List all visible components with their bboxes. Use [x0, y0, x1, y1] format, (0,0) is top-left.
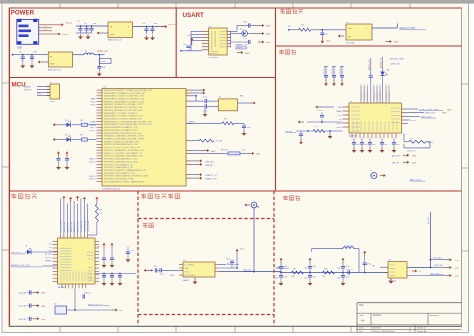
bias cap C34	[275, 273, 287, 286]
junction U2 out	[146, 26, 154, 28]
svg-text:ADCLK1_75M: ADCLK1_75M	[400, 27, 415, 30]
BNC P1	[251, 200, 259, 208]
labels topright filter	[390, 58, 404, 66]
power arrow C44	[34, 291, 47, 295]
wire R1 to U5	[311, 29, 346, 31]
svg-text:DVDD_3.3: DVDD_3.3	[67, 223, 69, 232]
svg-text:Drawn By:: Drawn By:	[417, 330, 427, 333]
U9 out row2	[219, 267, 237, 269]
U8 top pins	[61, 234, 88, 238]
resistor R8 vertical	[88, 197, 103, 235]
svg-text:SWDIO: SWDIO	[24, 86, 31, 88]
capacitor C23 xtal	[203, 104, 218, 113]
svg-text:0.1u: 0.1u	[95, 257, 99, 259]
USB connector J1 body	[17, 20, 39, 45]
svg-text:GND: GND	[170, 275, 175, 277]
labels right net	[95, 246, 99, 259]
mixer U9 body	[183, 262, 215, 277]
U1 designator	[103, 86, 107, 88]
svg-text:PB7/I2C1_SDA/TIM4_CH2/USART1_R: PB7/I2C1_SDA/TIM4_CH2/USART1_RX	[104, 155, 143, 158]
power arrow up usart	[187, 35, 193, 45]
svg-text:USART: USART	[183, 12, 205, 19]
USB connector J1 pads	[17, 19, 37, 45]
capacitor C30 ref bottom	[83, 293, 92, 299]
U9 right pins	[215, 265, 219, 272]
svg-text:GND: GND	[41, 319, 46, 321]
net label AVDD vertical red	[380, 57, 383, 68]
LED D5	[27, 248, 58, 254]
svg-text:VCC: VCC	[455, 260, 460, 262]
gnd under caps xtal	[203, 108, 208, 117]
svg-text:MIX_IN: MIX_IN	[392, 162, 399, 164]
wire BNC vertical	[253, 208, 255, 272]
capacitor C3	[89, 23, 97, 33]
crystal Y1 body	[218, 97, 237, 111]
resistor R2 filter	[313, 126, 343, 132]
divider MCU/filter bottom	[10, 190, 462, 192]
capacitor C50 under U6	[352, 138, 360, 153]
svg-text:10k: 10k	[322, 276, 325, 278]
power port 5V arrow	[58, 23, 73, 27]
det out row2	[430, 264, 459, 270]
regulator U2 label	[108, 39, 122, 42]
capacitor C53 under U6	[380, 138, 388, 153]
LED D1 usart	[231, 29, 259, 37]
U1 right pins top	[186, 90, 192, 178]
dashed box mixer bottom	[138, 314, 274, 316]
det main wire	[281, 272, 388, 274]
bypass top wire det	[312, 249, 343, 252]
capacitor C54 under U6	[392, 138, 400, 153]
svg-text:104: 104	[304, 267, 307, 269]
BNC J6 filter out	[370, 170, 386, 179]
capacitor C51 under U6	[360, 138, 368, 153]
svg-text:AVCC_3.3: AVCC_3.3	[97, 50, 108, 53]
VCC arrow opamp	[412, 270, 422, 274]
wire U5 output	[372, 24, 397, 29]
svg-text:AD8367: AD8367	[349, 135, 358, 138]
ground under C3	[86, 34, 91, 39]
U1 internal pin names	[104, 89, 153, 184]
U1 left pin labels	[89, 98, 96, 181]
svg-text:GND: GND	[245, 53, 250, 55]
svg-text:USART1_TX: USART1_TX	[205, 174, 217, 177]
section title signal-input (CJK)	[141, 193, 180, 198]
svg-text:Number: Number	[373, 314, 381, 317]
capacitor C20 mcu	[56, 151, 61, 170]
svg-text:104: 104	[356, 144, 359, 146]
svg-text:Sheet of: Sheet of	[417, 326, 426, 329]
bias cap C36	[337, 273, 349, 286]
U7 left stub	[384, 272, 388, 274]
svg-text:VPS1_IN: VPS1_IN	[389, 92, 391, 100]
svg-text:VPS1_IN: VPS1_IN	[386, 92, 388, 100]
ground under C5	[150, 35, 155, 40]
svg-text:AGND_REF: AGND_REF	[70, 221, 73, 232]
wire USB D+	[39, 29, 52, 31]
svg-text:C40: C40	[284, 266, 287, 268]
U6 right pins	[402, 109, 406, 124]
svg-text:C41: C41	[313, 266, 316, 268]
svg-text:PB9/TIM4_CH4/CANTX/I2C1_SDA: PB9/TIM4_CH4/CANTX/I2C1_SDA	[104, 160, 138, 163]
filter IC U6 body	[349, 103, 402, 133]
svg-text:C46 104: C46 104	[19, 319, 27, 321]
svg-text:VSS_3: VSS_3	[89, 176, 96, 178]
svg-text:C30 0.1: C30 0.1	[84, 293, 92, 295]
section title mixer (CJK)	[143, 223, 154, 228]
svg-text:PB0/ADC12_IN8/TIM3_CH3/TIM1_CH: PB0/ADC12_IN8/TIM3_CH3/TIM1_CH2N	[104, 135, 144, 138]
U8 left pin labels	[45, 244, 52, 263]
capacitor C6	[19, 51, 25, 62]
svg-text:VPS1_IN: VPS1_IN	[364, 92, 366, 100]
svg-text:C44 104: C44 104	[19, 293, 27, 295]
svg-text:POWER: POWER	[11, 9, 35, 16]
arrow left VCA	[315, 106, 334, 109]
U9 internal text	[185, 264, 196, 277]
inductor L1	[84, 51, 94, 55]
svg-text:PA3/USART2_RX/ADC12_IN3/TIM2_C: PA3/USART2_RX/ADC12_IN3/TIM2_CH4	[104, 97, 145, 100]
title block grid	[357, 303, 462, 333]
svg-text:C35: C35	[313, 277, 316, 279]
svg-text:GND: GND	[185, 268, 190, 270]
svg-text:2021/5/30: 2021/5/30	[371, 327, 382, 329]
filter top pin numbers	[361, 84, 390, 86]
bypass right drop	[354, 249, 359, 273]
svg-text:VPS2: VPS2	[336, 123, 342, 125]
svg-text:PB6/I2C1_SCL/TIM4_CH1/USART1_T: PB6/I2C1_SCL/TIM4_CH1/USART1_TX	[104, 152, 143, 155]
svg-text:CLK: CLK	[338, 115, 343, 117]
svg-text:104: 104	[396, 144, 399, 146]
power arrow C46	[34, 317, 47, 321]
capacitor C17 filter	[316, 110, 324, 122]
divider POWER bottom	[10, 77, 276, 79]
svg-text:PA7/SPI1_MOSI/ADC12_IN7/TIM3_C: PA7/SPI1_MOSI/ADC12_IN7/TIM3_CH2	[104, 109, 144, 112]
resistor R10 det	[322, 268, 335, 278]
U8 right pins	[95, 241, 99, 281]
svg-text:PC13/TAMPER-RTC/ANTI_TAMP/WKUP: PC13/TAMPER-RTC/ANTI_TAMP/WKUP2	[104, 180, 145, 183]
bias tap 1 arrow up	[275, 258, 287, 274]
svg-text:VOUTP_DDS: VOUTP_DDS	[88, 220, 90, 232]
ground bent filter	[328, 131, 333, 139]
resistor R3 gain	[404, 134, 434, 144]
capacitor C21 mcu	[65, 151, 70, 170]
svg-text:C36: C36	[346, 277, 349, 279]
svg-text:VCC: VCC	[455, 268, 460, 270]
bias cap C35	[304, 273, 316, 286]
wire clk to U8	[43, 265, 59, 267]
opamp U7 body	[388, 262, 407, 278]
VCC arrow mixer	[236, 249, 245, 269]
svg-text:A_VCC: A_VCC	[427, 217, 430, 224]
wire X2 out	[67, 309, 113, 311]
svg-text:D2: D2	[49, 250, 51, 252]
svg-text:VPS1_IN: VPS1_IN	[377, 92, 379, 100]
ground under U9	[193, 277, 198, 284]
svg-text:PA13/JTMS/SWDIO/USART2_CTS: PA13/JTMS/SWDIO/USART2_CTS	[104, 126, 138, 129]
svg-text:PA15/JTDI/SPI1_NSS/TIM2_CH1_ET: PA15/JTDI/SPI1_NSS/TIM2_CH1_ETR	[104, 132, 142, 135]
svg-text:C17 0.1: C17 0.1	[316, 110, 324, 112]
svg-text:104: 104	[337, 278, 340, 280]
svg-text:Size: Size	[359, 315, 364, 317]
net label CH2 IN	[243, 270, 255, 272]
power port GND arrow	[55, 33, 68, 37]
net label box	[100, 58, 112, 63]
U6 bottom pins	[352, 134, 396, 139]
svg-text:VDD_2: VDD_2	[89, 162, 96, 164]
U7 internal	[390, 265, 396, 276]
arrows rows 174-178	[192, 173, 217, 181]
capacitor C1	[77, 21, 83, 34]
U8 left pins	[53, 241, 59, 281]
U6 right wire row1	[405, 109, 452, 112]
capacitor row A	[243, 22, 258, 28]
wire LED row C	[231, 41, 249, 43]
svg-text:C34: C34	[284, 277, 287, 279]
U7 designator	[388, 259, 392, 261]
capacitor C33 mixer	[226, 258, 234, 268]
dashed box signal-input right	[273, 191, 275, 326]
LED D4 row	[53, 135, 97, 142]
svg-text:GND: GND	[41, 306, 46, 308]
svg-text:C19 0.1u: C19 0.1u	[407, 150, 416, 152]
power arrow row B	[258, 32, 271, 36]
svg-text:2: 2	[373, 84, 374, 86]
net label AVCC red	[97, 50, 108, 53]
net label AD9851 CLK	[11, 264, 42, 267]
svg-text:FQ_UD: FQ_UD	[45, 257, 52, 259]
svg-text:10k: 10k	[291, 276, 294, 278]
svg-text:PA2/USART2_TX/ADC12_IN2/TIM2_C: PA2/USART2_TX/ADC12_IN2/TIM2_CH3	[104, 95, 145, 98]
bias tap 3 arrow up	[337, 258, 349, 274]
USB connector J1 pins	[19, 25, 32, 37]
svg-text:VCC3.3: VCC3.3	[168, 24, 177, 26]
U1 left pin stubs	[97, 90, 103, 182]
section title POWER	[11, 9, 35, 16]
svg-text:LO_INPUT: LO_INPUT	[185, 264, 196, 266]
det input labels	[277, 267, 289, 274]
power-port arrow into U3 GND	[38, 61, 49, 64]
ground under C7	[30, 63, 35, 68]
capacitor C31 mixer	[153, 266, 160, 273]
ground under C8	[97, 71, 102, 76]
svg-text:104: 104	[364, 144, 367, 146]
svg-text:2: 2	[364, 84, 365, 86]
sheet bottom border line	[9, 325, 462, 327]
svg-text:PA0/WKUP/USART2_CTS/ADC12_IN0/: PA0/WKUP/USART2_CTS/ADC12_IN0/TIM2_CH1	[104, 89, 153, 92]
capacitor C16 filter	[369, 58, 373, 103]
svg-text:CH340G: CH340G	[209, 57, 218, 59]
wire LED row A	[231, 26, 249, 32]
section title reference-signal (CJK)	[11, 193, 37, 198]
gnd arrow U5	[386, 40, 400, 44]
feedback wire R3	[404, 142, 430, 153]
svg-text:2: 2	[361, 84, 362, 86]
svg-text:D0: D0	[49, 244, 51, 246]
crystal input pin	[288, 26, 299, 31]
U4 label CH340G	[209, 57, 218, 59]
U9 designator	[183, 260, 187, 262]
svg-text:AMS1117-3.3: AMS1117-3.3	[48, 69, 62, 72]
U6 right wire row2	[405, 113, 447, 115]
svg-text:ADCLK1_75M: ADCLK1_75M	[390, 58, 404, 61]
svg-text:GND: GND	[110, 34, 115, 36]
U6 internal text	[352, 107, 401, 131]
net label ADCLK1 75M	[400, 27, 427, 30]
svg-text:COM_OUT: COM_OUT	[390, 64, 401, 66]
J2 labels	[24, 82, 55, 103]
svg-text:USB_DP: USB_DP	[205, 165, 214, 167]
svg-text:A4: A4	[361, 319, 365, 323]
U9 left pins	[170, 265, 183, 277]
arrow left mixer	[144, 269, 153, 272]
U6 right wire row5	[405, 123, 408, 125]
capacitor row C	[243, 38, 250, 44]
svg-text:CLK: CLK	[119, 310, 124, 312]
svg-text:STM32F103C8T6: STM32F103C8T6	[102, 189, 121, 191]
capacitor C46 row	[19, 317, 34, 321]
crystal X2 body	[54, 304, 67, 315]
wire mid-left filter	[307, 121, 343, 123]
svg-text:CH2_AD: CH2_AD	[433, 256, 442, 259]
U6 left pins	[343, 107, 350, 127]
net label LED_OUT	[11, 245, 28, 255]
svg-text:VCA: VCA	[337, 106, 342, 109]
bias tap 2 arrow up	[304, 258, 316, 274]
svg-text:VDD: VDD	[348, 28, 353, 30]
svg-text:File:: File:	[359, 331, 364, 333]
svg-text:VCC_3.3_DDS: VCC_3.3_DDS	[61, 219, 63, 232]
svg-text:AVDD_3.3: AVDD_3.3	[73, 223, 76, 232]
cap C29 ref	[126, 247, 135, 262]
U4 designator	[209, 26, 213, 28]
U9 out row3 wire	[219, 271, 281, 273]
gnd arrow below U4	[237, 51, 250, 55]
capacitor C45 row	[19, 304, 34, 308]
svg-text:GND: GND	[50, 64, 55, 66]
svg-text:XO-75M: XO-75M	[346, 43, 354, 45]
svg-text:VPS1_IN: VPS1_IN	[380, 92, 382, 100]
inductor L2 det	[343, 245, 354, 248]
svg-text:C42: C42	[346, 266, 349, 268]
DDS IC U8 body	[58, 238, 96, 284]
svg-text:D-: D-	[44, 26, 47, 28]
svg-text:PC14: PC14	[90, 102, 96, 104]
resistor R1 crystal	[299, 24, 311, 31]
capacitor C52 under U6	[368, 138, 376, 153]
svg-text:1: 1	[253, 200, 254, 202]
U8 top rotated labels	[61, 219, 90, 232]
svg-text:PB15/SPI2_MOSI/TIM1_CH3N: PB15/SPI2_MOSI/TIM1_CH3N	[104, 179, 134, 181]
capacitor C44 row	[19, 290, 34, 294]
svg-text:104: 104	[372, 144, 375, 146]
capacitor C18 filter	[299, 131, 303, 145]
svg-text:PC15: PC15	[90, 104, 96, 106]
resistor R9 det	[291, 268, 304, 278]
svg-text:PA1/USART2_RTS/ADC12_IN1/TIM2_: PA1/USART2_RTS/ADC12_IN1/TIM2_CH2	[104, 92, 146, 95]
svg-text:GND: GND	[63, 34, 68, 36]
bypass cap group 1 filter	[324, 66, 328, 86]
svg-text:REFCLK_IN: REFCLK_IN	[78, 221, 80, 232]
capacitor C37 series	[346, 269, 354, 275]
arrow row 150	[192, 149, 216, 153]
U5 label	[346, 43, 354, 45]
ground under C1	[76, 33, 92, 39]
svg-text:PB12/SPI2_NSS/I2C2_SMBAI/USART: PB12/SPI2_NSS/I2C2_SMBAI/USART3_CK	[104, 169, 147, 172]
wire USB D-	[39, 26, 52, 28]
U7 left pin2	[372, 265, 388, 267]
svg-text:GND: GND	[266, 26, 271, 28]
BOOT0 circuit	[192, 150, 261, 156]
svg-text:PA8/USART1_CK/TIM1_CH1/MCO: PA8/USART1_CK/TIM1_CH1/MCO	[104, 112, 138, 115]
svg-text:GND: GND	[266, 34, 271, 36]
power arrows above U8	[62, 196, 85, 202]
svg-text:D1: D1	[49, 247, 51, 249]
svg-text:D5: D5	[26, 245, 28, 247]
svg-text:2: 2	[386, 84, 387, 86]
section title detector (CJK)	[283, 195, 300, 200]
U7 out wire	[407, 267, 431, 269]
capacitor C5	[150, 23, 158, 34]
svg-text:VPS1_IN: VPS1_IN	[367, 92, 369, 100]
red outer frame left	[9, 8, 11, 326]
svg-text:GND: GND	[256, 154, 261, 156]
U6 left pin labels	[336, 106, 343, 129]
power arrow row A	[258, 24, 271, 28]
cap C38 det	[363, 251, 372, 274]
svg-text:VDD_1: VDD_1	[89, 130, 96, 132]
svg-text:PGND: PGND	[336, 127, 342, 129]
svg-text:SWCLK: SWCLK	[24, 89, 32, 91]
svg-text:C37 0.1: C37 0.1	[346, 269, 354, 271]
ground under C6	[20, 63, 25, 68]
power port VCC3.3 row1	[161, 24, 177, 28]
svg-text:C45 104: C45 104	[19, 306, 27, 308]
oscillator U5 body	[346, 24, 372, 40]
wire U8 right rail	[95, 273, 136, 275]
wire U2 output	[133, 26, 168, 28]
MCU IC U1 body	[102, 89, 186, 186]
wire U8 bottom to X2	[74, 288, 76, 310]
svg-text:Revision: Revision	[430, 315, 440, 317]
section title active-crystal (CJK)	[280, 9, 303, 14]
svg-text:VCC5: VCC5	[66, 23, 73, 25]
capacitor C32 mixer	[160, 268, 183, 276]
svg-text:Title: Title	[359, 304, 364, 307]
arrows rows 160-164	[192, 159, 214, 167]
svg-text:W_CLK: W_CLK	[45, 254, 52, 256]
junction node row1	[80, 25, 93, 27]
svg-text:VPSI: VPSI	[411, 120, 416, 122]
SWD header J2 body	[50, 84, 60, 99]
junction row2	[22, 54, 33, 56]
LED D2 filter	[380, 57, 390, 103]
regulator U3 body	[48, 52, 72, 67]
wire OSC rows	[192, 101, 204, 106]
svg-text:VCC: VCC	[455, 276, 460, 278]
U8 top vertical wires	[61, 199, 88, 234]
svg-text:PA11/USART1_CTS/USBDM/CAN_RX/T: PA11/USART1_CTS/USBDM/CAN_RX/TIM1_CH4	[104, 120, 153, 123]
divider POWER|USART	[175, 8, 177, 78]
resistor R7 row	[192, 139, 223, 143]
arrow left mid filter	[298, 121, 304, 124]
U9 label	[183, 279, 190, 282]
svg-text:AMS1117-5.0: AMS1117-5.0	[108, 39, 122, 42]
bypass cap group 2 filter	[332, 66, 336, 86]
wire U3 output	[73, 54, 84, 56]
svg-text:2: 2	[389, 84, 390, 86]
U4 right pins	[227, 31, 230, 46]
capacitor C26 ref	[118, 274, 123, 286]
